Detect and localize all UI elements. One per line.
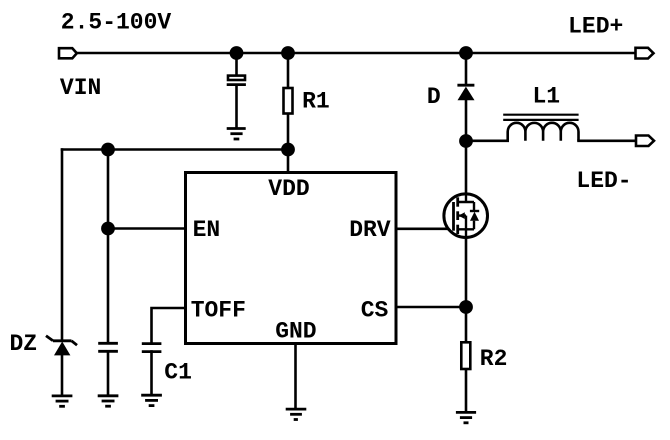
ground (DZ) [52,396,73,406]
source connection [458,229,474,237]
capacitor (mid, x=108) [98,343,118,351]
svg-text:VDD: VDD [268,176,309,202]
svg-text:DRV: DRV [349,217,391,243]
node junction rail2-VDD [281,143,295,157]
resistor R1 [284,88,293,114]
transistor Q1 (MOSFET) [444,194,488,238]
svg-text:L1: L1 [533,83,561,109]
capacitor C1 [142,344,162,352]
terminal VIN [59,48,77,58]
wire TOFF pin [152,308,185,343]
svg-text:LED-: LED- [576,168,631,194]
gate bar [452,202,455,231]
wire EN pin [108,227,184,230]
wire vertical x=108 to capacitor [107,150,110,343]
capacitor top (polarized) plate+ [228,76,245,80]
wire second rail [62,148,288,151]
svg-text:DZ: DZ [10,331,38,357]
wire GND pin [294,346,297,409]
svg-text:GND: GND [275,319,316,345]
wire DZ to ground [61,356,64,396]
terminal LED- [636,136,654,147]
resistor R2 [461,342,470,369]
wire R2 to ground [465,369,468,412]
diode D [457,85,474,100]
body diode [473,202,475,229]
ground (R2) [456,412,476,422]
svg-text:LED+: LED+ [568,13,623,39]
body arrow [459,214,466,216]
node junction diode-top [459,46,473,60]
ground (IC GND) [286,409,307,419]
node junction top-cap [230,46,244,60]
capacitor top plate- [227,83,246,86]
drain connection [458,194,474,202]
svg-text:VIN: VIN [60,75,101,101]
inductor L1 [503,115,578,141]
IC U1 [186,173,397,344]
node junction R1-top [281,46,295,60]
svg-text:EN: EN [193,217,221,243]
ground (top cap) [227,129,246,140]
wire top cap branch [235,53,238,75]
channel segments [456,197,459,234]
node junction rail2-x108 [101,143,115,157]
wire CS junction to R2 [465,307,468,342]
wire left vertical to DZ [61,150,64,340]
svg-text:D: D [427,84,441,110]
wire R1 top [287,53,290,88]
terminal LED+ [636,48,654,59]
wire L1 to LED- terminal [579,140,637,143]
svg-text:R2: R2 [480,346,508,372]
wire diode D bottom to switch node [465,100,468,141]
svg-text:CS: CS [361,298,389,324]
wire top rail VIN to LED+ [77,52,635,55]
wire R1 bottom to VDD [287,114,290,172]
node junction switch-node [459,134,473,148]
wire top cap to ground [235,86,238,128]
wire DRV pin to gate [398,228,454,231]
wire drain into MOSFET [465,141,468,202]
wire diode D top [465,53,468,83]
ground (mid cap) [98,396,119,406]
node junction EN [101,222,115,236]
zener diode DZ [46,336,77,356]
svg-text:C1: C1 [164,360,192,386]
ground (C1) [141,395,162,405]
svg-text:2.5-100V: 2.5-100V [61,10,172,36]
wire source to CS junction [465,229,468,307]
svg-text:TOFF: TOFF [191,298,246,324]
wire switch node to L1 [466,140,508,143]
svg-text:R1: R1 [302,89,330,115]
wire C1 to ground [150,352,153,396]
node junction CS [459,300,473,314]
wire CS pin [398,306,467,309]
wire mid cap to ground [107,352,110,396]
